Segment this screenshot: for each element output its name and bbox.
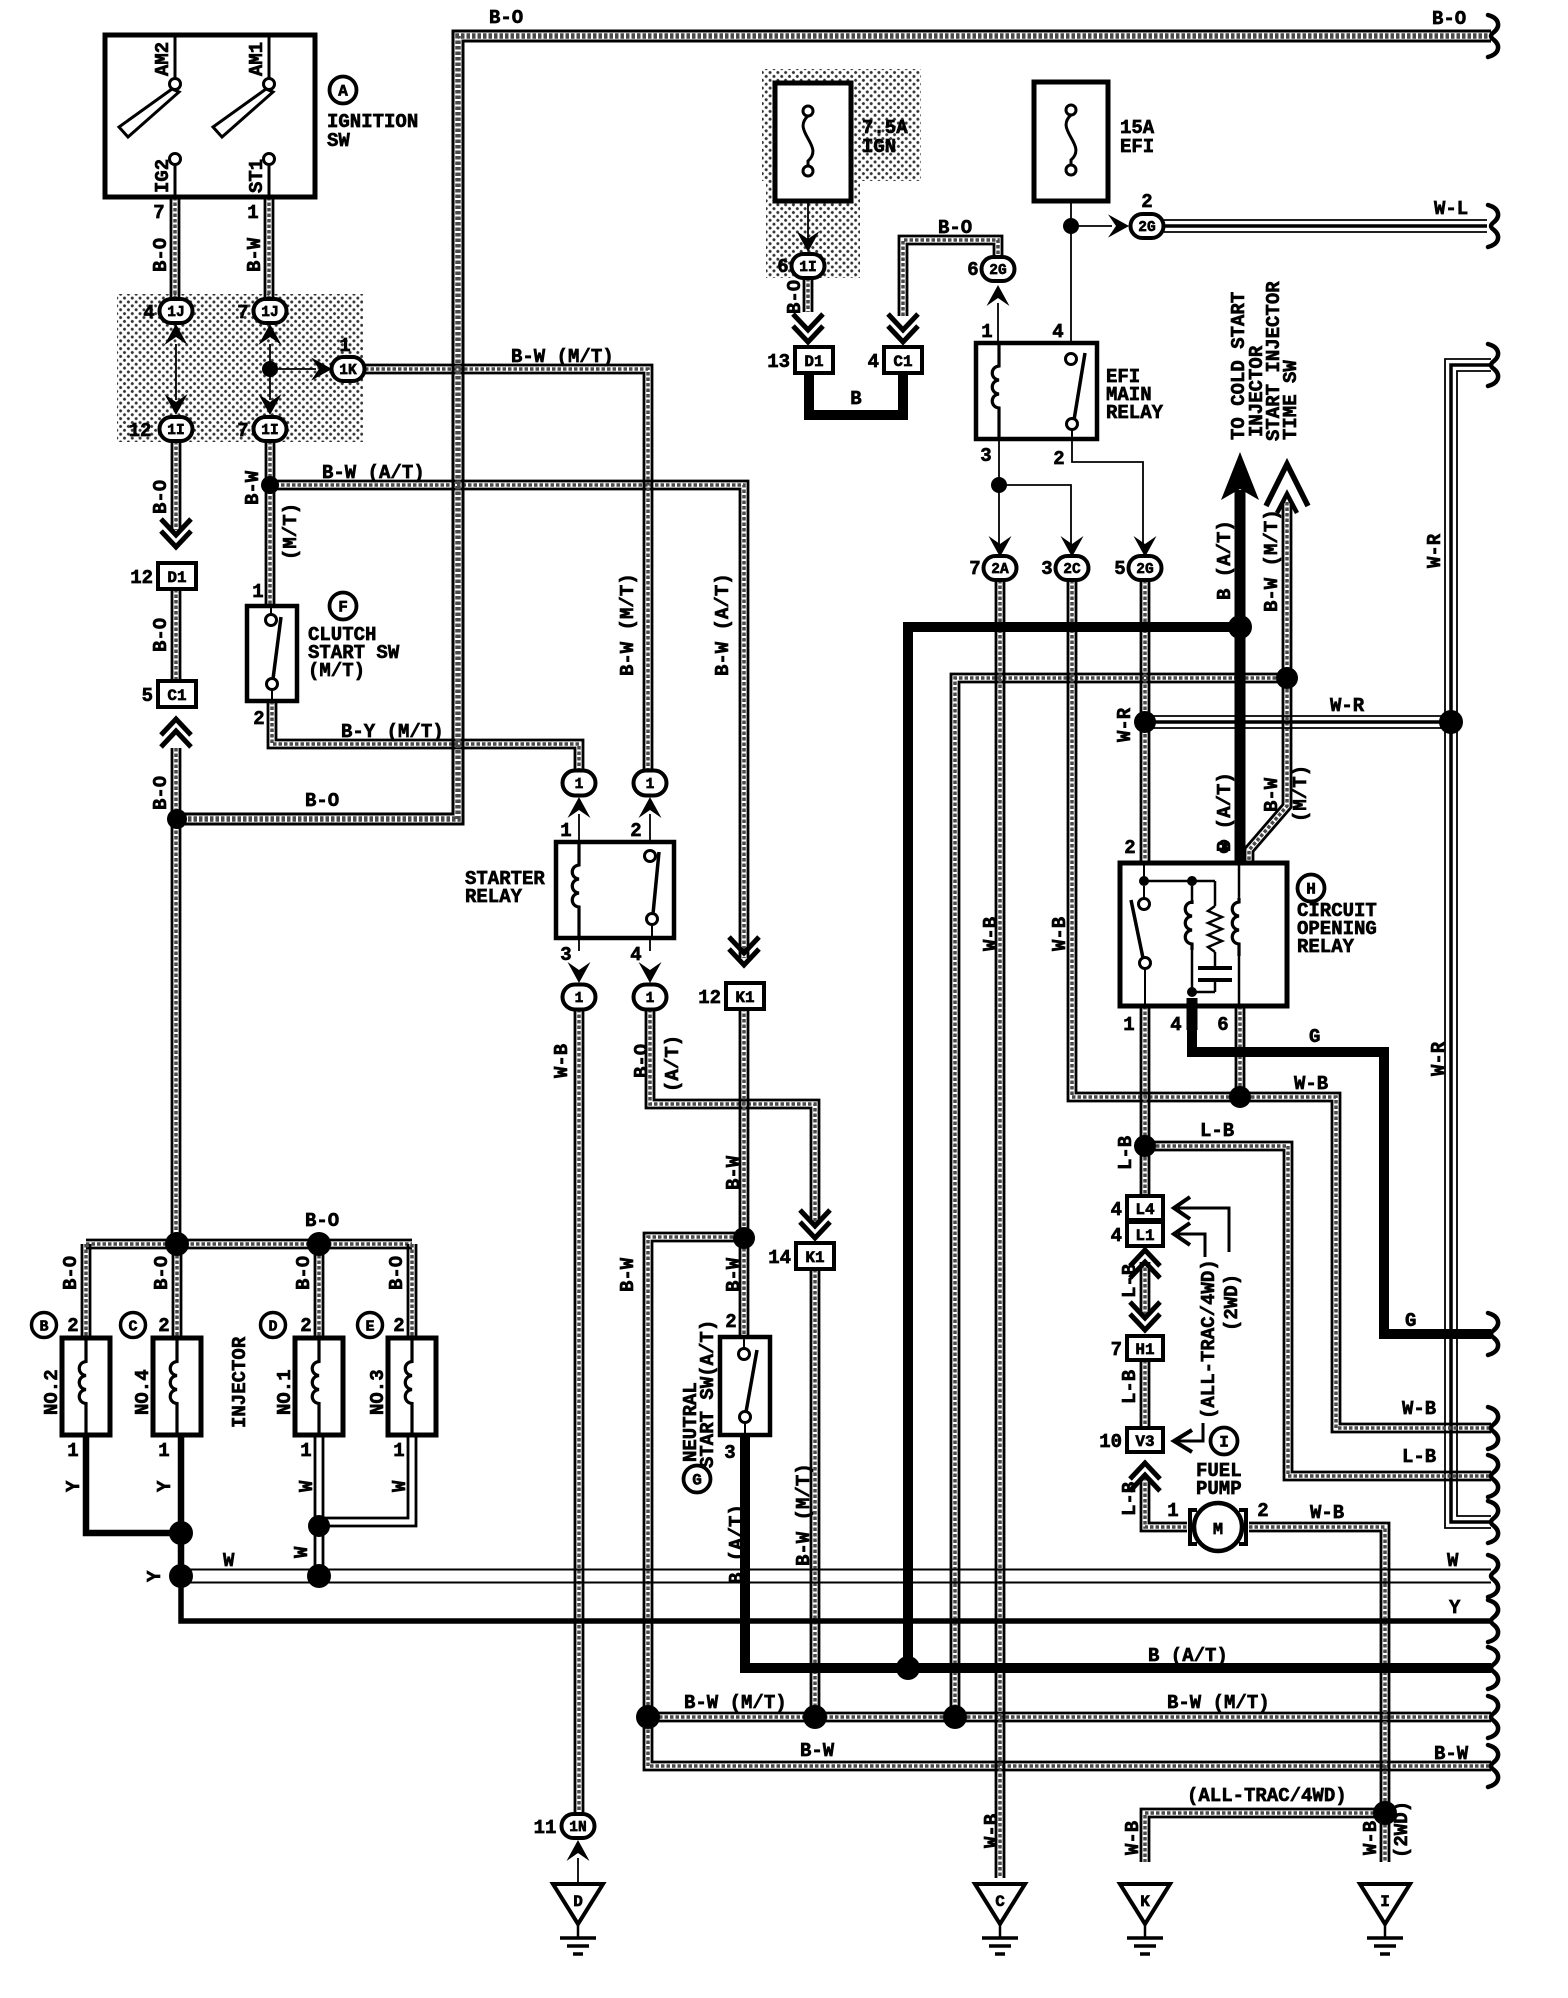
svg-text:4: 4 [1111,1199,1122,1221]
svg-text:W-R: W-R [1428,1041,1450,1076]
wire W-B from 2G to relay [1141,580,1149,863]
wire link starter pin3 [578,938,580,951]
wire link 15A to 2G oval [1071,225,1112,227]
svg-text:W-B: W-B [1294,1073,1328,1095]
wire B-O below 1I [172,441,180,530]
svg-text:RELAY: RELAY [1106,402,1164,424]
svg-text:D1: D1 [167,569,186,587]
node junction B-O left [167,809,187,829]
wire L-B to L4 [1141,1146,1149,1194]
svg-text:W: W [223,1550,235,1572]
svg-text:4: 4 [630,944,641,966]
brace B-W (M/T) [1488,1696,1498,1738]
wire B (A/T) arrow shaft [1235,490,1246,863]
node junction W bus [307,1564,331,1588]
arrow into 6 1I [797,231,820,252]
wire W-B to right brace [1240,1093,1491,1432]
svg-text:B-O: B-O [386,1256,408,1290]
svg-text:1: 1 [67,1440,78,1462]
node junction B-W M/T riser [1276,667,1298,689]
COR pin4 stub [1187,998,1198,1030]
svg-text:12: 12 [129,420,152,442]
brace B (A/T) [1488,1647,1498,1689]
svg-text:H1: H1 [1135,1341,1154,1359]
svg-text:B (A/T): B (A/T) [1148,1645,1228,1667]
connector 12 D1 [158,563,196,589]
wire link 1J-1I left [175,344,177,400]
wire B-O stub injector no3 [408,1244,416,1338]
node junction L-B [1134,1135,1156,1157]
svg-text:2: 2 [1257,1500,1268,1522]
symbol circle F [330,593,357,620]
svg-text:B-O: B-O [150,480,172,514]
svg-text:I: I [1380,1893,1390,1911]
wire link fuse EFI down [1070,177,1072,343]
ignition switch A [105,35,315,197]
svg-text:B-O: B-O [60,1256,82,1290]
node junction B AT bus [896,1656,920,1680]
svg-text:4: 4 [868,351,879,373]
svg-text:(M/T): (M/T) [280,503,302,560]
wire link starter pin4 [649,938,651,951]
svg-text:B-W (M/T): B-W (M/T) [793,1463,815,1566]
fuse 7.5A IGN [775,83,851,201]
svg-text:2G: 2G [989,263,1006,279]
connector 5 2G [1129,556,1162,580]
svg-text:2: 2 [1141,191,1152,213]
svg-text:1: 1 [575,991,584,1007]
wire L-B H1 to V3 [1141,1360,1149,1426]
svg-text:(2WD): (2WD) [1221,1274,1243,1331]
svg-text:W: W [389,1480,411,1492]
svg-text:2: 2 [1124,837,1135,859]
shaded region below fuse [766,181,860,278]
svg-text:6: 6 [1217,1014,1228,1036]
svg-text:1: 1 [646,777,655,793]
wire B-O stub injector no1 [315,1244,323,1338]
arrow ref fuel pump [1174,1423,1203,1452]
svg-text:12: 12 [130,567,153,589]
svg-text:B: B [39,1319,48,1336]
connector 1 1K [332,357,365,381]
svg-text:1: 1 [247,202,258,224]
arrow into 5 C1 [161,719,191,747]
wire W-B from relay pin 6 [1236,1006,1244,1097]
injector no1 [295,1338,343,1435]
wire B-W (M/T) arrow shaft [1245,502,1291,863]
symbol circle H [1298,875,1325,902]
svg-text:C1: C1 [893,353,912,371]
svg-text:(ALL-TRAC/4WD): (ALL-TRAC/4WD) [1187,1785,1347,1807]
svg-text:2: 2 [393,1315,404,1337]
svg-text:2: 2 [158,1315,169,1337]
svg-text:2: 2 [725,1311,736,1333]
wire link 1J-1I right [269,344,271,400]
svg-text:L4: L4 [1135,1201,1155,1219]
wire B-W (M/T) below 14 K1 [811,1269,819,1717]
connector starter oval 1 [563,771,596,796]
svg-text:(ALL-TRAC/4WD): (ALL-TRAC/4WD) [1198,1259,1220,1419]
circuit opening relay [1120,863,1287,1006]
connector starter oval 2 [634,771,667,796]
wire B-O main loop top [177,31,1491,824]
wire link starter pin2 [649,814,651,842]
svg-text:7: 7 [969,558,980,580]
svg-text:W-B: W-B [1122,1821,1144,1855]
svg-text:L-B: L-B [1119,1482,1141,1516]
arrow into starter oval 1 [568,797,591,818]
svg-text:RELAY: RELAY [1297,936,1355,958]
svg-text:D: D [573,1893,583,1911]
wire B-O from C1 down to junction [172,748,180,1244]
svg-text:12: 12 [698,987,721,1009]
wire B-W (M/T) from 1K [365,365,652,772]
node junction W injectors [308,1515,330,1537]
svg-text:NO.3: NO.3 [367,1369,389,1415]
svg-text:IG2: IG2 [152,159,174,193]
svg-text:2A: 2A [991,562,1009,578]
svg-text:NO.1: NO.1 [274,1369,296,1415]
wire link relay pin3 to 2A [998,439,1000,550]
node junction B-W K1 [733,1227,755,1249]
wire B-O stub injector no4 [173,1244,181,1338]
svg-text:K1: K1 [805,1249,824,1267]
svg-text:1: 1 [300,1440,311,1462]
svg-text:W-B: W-B [980,917,1002,951]
svg-text:W-B: W-B [1049,917,1071,951]
wire L-B from relay pin 1 [1141,1006,1149,1146]
svg-text:(2WD): (2WD) [1391,1801,1413,1858]
arrow into 4 C1 [888,314,918,342]
wire W-B from 2A [996,580,1004,1878]
svg-text:H: H [1306,881,1316,899]
wire link 1N to ground D [577,1858,579,1884]
svg-text:SW: SW [327,130,350,152]
clutch start switch F [247,606,297,701]
shaded region connector block 1J/1I [117,294,363,442]
svg-text:B-W (M/T): B-W (M/T) [617,573,639,676]
svg-text:4: 4 [1052,321,1063,343]
arrow into starter oval 4 [639,962,662,983]
shaded region fuse 7.5A IGN [762,69,921,181]
svg-text:B-O: B-O [150,776,172,810]
svg-text:B-W: B-W [617,1257,639,1292]
svg-text:B-O: B-O [305,1210,339,1232]
arrow into 10 V3 [1130,1463,1160,1491]
svg-text:7: 7 [1111,1339,1122,1361]
arrow into starter oval 2 [639,797,662,818]
connector 3 2C [1056,556,1089,580]
arrow into 4 L1 [1130,1250,1160,1278]
connector 11 1N [562,1814,595,1838]
svg-text:2: 2 [1053,448,1064,470]
wire B-O to 6 1I [804,278,812,312]
brace W-L [1488,205,1498,247]
svg-text:RELAY: RELAY [465,886,523,908]
svg-text:L-B: L-B [1119,1370,1141,1404]
wire B-W (M/T) bus [648,1713,1491,1721]
connector 4 L4 [1127,1196,1163,1220]
svg-text:3: 3 [1041,558,1052,580]
connector 14 K1 [796,1243,834,1269]
svg-text:1N: 1N [569,1820,586,1836]
wire W-R horizontal [1145,716,1451,728]
svg-text:1: 1 [158,1440,169,1462]
svg-text:2C: 2C [1063,562,1081,578]
svg-text:B-O: B-O [938,217,972,239]
svg-text:1J: 1J [261,305,278,321]
svg-text:INJECTOR: INJECTOR [229,1336,251,1428]
svg-text:B-O: B-O [305,790,339,812]
wire B-W to left and B-W bottom bus [644,1233,1491,1770]
svg-text:NO.2: NO.2 [41,1369,63,1415]
wire Y from injector no2 [86,1435,184,1533]
svg-text:L-B: L-B [1200,1120,1234,1142]
node junction Y 1 [169,1521,193,1545]
node junction B A/T top [1228,615,1252,639]
arrow start injector time sw [1266,464,1308,513]
svg-text:B-O: B-O [489,7,523,29]
wire B-Y (M/T) from clutch sw [268,701,583,772]
wire W-B from fuel pump [1249,1523,1389,1810]
connector 6 1I top [792,254,825,278]
fuel pump motor I [1190,1503,1246,1551]
wire W-B all-trac to ground K [1141,1809,1385,1862]
svg-text:B-O: B-O [1432,8,1466,30]
svg-text:A: A [338,83,348,101]
arrow into 5 2G [1134,536,1157,557]
node junction W-B relay [1229,1086,1251,1108]
svg-text:B: B [850,388,861,410]
arrow into 7 H1 [1130,1302,1160,1330]
wire B (A/T) riser [908,627,1246,1668]
wire W-R vertical [1445,359,1491,1528]
brace W [1488,1555,1498,1597]
svg-text:B-W: B-W [244,237,266,272]
brace Y [1488,1600,1498,1642]
svg-text:M: M [1213,1521,1223,1540]
svg-text:2G: 2G [1138,220,1155,236]
connector 4 C1 [884,347,922,373]
wire B-W below 1I right [266,441,274,606]
injector no1 coil [312,1338,319,1435]
svg-text:W-B: W-B [551,1044,573,1078]
wire B-W (A/T) branch [270,481,748,958]
COR coil 1 [1185,902,1192,950]
svg-text:C: C [128,1319,137,1336]
node junction Y 2 [169,1564,193,1588]
arrow into 13 D1 [793,314,823,342]
wire link fuse IGN to 1I [807,177,809,240]
svg-text:2: 2 [253,708,264,730]
svg-text:START SW(A/T): START SW(A/T) [697,1320,719,1468]
EFI relay coil [992,343,999,439]
svg-text:W: W [291,1546,313,1558]
brace W-R bottom [1488,1501,1498,1543]
node junction 1K branch [262,361,278,377]
wire link relay pin2 to 2G [1072,439,1143,550]
svg-text:G: G [692,1472,702,1490]
svg-text:B-W: B-W [723,1155,745,1190]
svg-text:Y: Y [154,1480,176,1492]
svg-text:2G: 2G [1136,562,1153,578]
neutral start switch G [720,1337,770,1435]
wire W-B to ground I [1381,1813,1389,1862]
svg-text:PUMP: PUMP [1196,1478,1242,1500]
wire B-O (A/T) from starter relay pin 4 [646,1009,819,1224]
svg-text:(M/T): (M/T) [308,660,365,682]
svg-text:AM1: AM1 [246,42,268,76]
brace W-B [1488,1407,1498,1449]
svg-text:W-B: W-B [1402,1398,1436,1420]
svg-text:W-R: W-R [1330,695,1365,717]
arrow into 2 2G [1108,214,1129,237]
svg-text:B-O: B-O [150,238,172,272]
svg-text:5: 5 [142,685,153,707]
svg-text:D: D [268,1319,277,1336]
svg-text:C: C [995,1893,1005,1911]
ground ground D [553,1884,603,1954]
ground ground I [1360,1884,1410,1954]
arrow into 12 K1 [729,937,759,965]
svg-text:4: 4 [1170,1014,1181,1036]
wire L-B V3 to fuel pump [1141,1477,1187,1531]
svg-text:1I: 1I [799,260,816,276]
svg-text:B-W: B-W [723,1257,745,1292]
wire link starter pin1 [578,814,580,842]
wire B wire D1-C1 [809,373,903,415]
svg-text:7: 7 [237,302,248,324]
svg-text:V3: V3 [1135,1433,1154,1451]
connector 12 K1 [726,983,764,1009]
svg-text:1I: 1I [167,423,184,439]
arrow into 6 2G [987,285,1010,306]
svg-text:B-W (M/T): B-W (M/T) [684,1692,787,1714]
arrow into 14 K1 [800,1210,830,1238]
svg-text:7: 7 [237,420,248,442]
svg-text:B-O: B-O [150,618,172,652]
symbol circle G [684,1466,711,1493]
svg-text:1: 1 [575,777,584,793]
starter relay switch [645,851,660,939]
svg-text:3: 3 [980,445,991,467]
wire W-B from 2C [1068,580,1240,1101]
svg-text:13: 13 [767,351,790,373]
svg-text:B-W: B-W [1434,1743,1469,1765]
starter relay [556,842,674,938]
injector no4 coil [170,1338,177,1435]
svg-text:7: 7 [153,202,164,224]
wire Y bus [181,1576,1491,1621]
svg-text:Y: Y [144,1570,166,1582]
connector 7 H1 [1127,1336,1163,1360]
svg-text:I: I [1219,1434,1229,1452]
connector 4 L1 [1127,1222,1163,1246]
svg-text:L1: L1 [1135,1227,1154,1245]
svg-text:1: 1 [981,321,992,343]
svg-text:5: 5 [1114,558,1125,580]
wire L-B to right brace [1145,1142,1491,1480]
svg-text:1J: 1J [167,305,184,321]
node junction EFI pin3 [991,477,1007,493]
brace G [1488,1313,1498,1355]
symbol circle A [330,77,357,104]
EFI relay switch [1066,353,1086,439]
wire link branch to 2C [999,485,1071,550]
symbol circle E [358,1313,383,1338]
arrow ref L4 [1174,1197,1229,1252]
svg-text:W: W [1447,1550,1459,1572]
wire B-W below 12 K1 [740,1008,748,1238]
arrow into 11 1N [567,1840,590,1861]
svg-text:L-B: L-B [1115,1136,1137,1170]
node junction B-O bus left [165,1232,189,1256]
arrow into 12 D1 [161,519,191,547]
wire L-B L1 to H1 [1141,1262,1149,1314]
svg-text:1: 1 [646,991,655,1007]
wire B (A/T) from neutral start sw [745,1435,1491,1668]
svg-text:B (A/T): B (A/T) [1214,520,1236,600]
svg-text:2: 2 [67,1315,78,1337]
svg-text:3: 3 [724,1442,735,1464]
wire W bus [181,1570,1491,1583]
svg-text:E: E [365,1319,374,1336]
svg-text:B-W (A/T): B-W (A/T) [322,462,425,484]
wire B-O from IG2 pin 7 [171,197,179,299]
svg-text:B-O: B-O [293,1256,315,1290]
svg-text:K1: K1 [735,989,754,1007]
svg-text:W-R: W-R [1114,707,1136,742]
connector 7 1I [254,417,287,441]
svg-text:1: 1 [1123,1014,1134,1036]
svg-text:1: 1 [339,335,350,357]
svg-text:B-W: B-W [242,470,264,505]
wire B-W to neutral start sw [740,1237,748,1337]
wire W from injector no1 [315,1435,323,1576]
svg-text:2: 2 [630,820,641,842]
injector no4 [153,1338,201,1435]
connector 7 2A [984,556,1017,580]
svg-text:10: 10 [1099,1431,1122,1453]
svg-text:C1: C1 [167,687,186,705]
node junction B-W MT bus 1 [636,1705,660,1729]
svg-text:ST1: ST1 [246,159,268,193]
connector 7 1J [254,299,287,323]
arrow ref L1 [1174,1223,1205,1257]
node junction B-W MT bus 3 [943,1705,967,1729]
node junction W-B all-trac [1373,1801,1397,1825]
connector 6 2G [982,257,1015,281]
ground ground C [975,1884,1025,1954]
svg-text:B-O: B-O [151,1256,173,1290]
node junction B-W A/T branch [261,476,279,494]
wire Y from injector no4 [178,1435,185,1576]
arrow into 2C [1061,536,1084,557]
svg-text:B-W (M/T): B-W (M/T) [1167,1692,1270,1714]
symbol circle I fuel pump [1211,1428,1238,1455]
svg-text:Y: Y [63,1480,85,1492]
svg-text:1: 1 [252,581,263,603]
connector 5 C1 [158,681,196,707]
wire W-L [1164,220,1487,232]
svg-text:W-B: W-B [1310,1502,1344,1524]
connector starter oval 3 [563,985,596,1010]
svg-text:L-B: L-B [1119,1264,1141,1298]
arrow into 1J left [164,324,187,345]
svg-text:TIME SW: TIME SW [1280,360,1302,440]
connector starter oval 4 [634,985,667,1010]
svg-text:(M/T): (M/T) [1290,765,1312,822]
